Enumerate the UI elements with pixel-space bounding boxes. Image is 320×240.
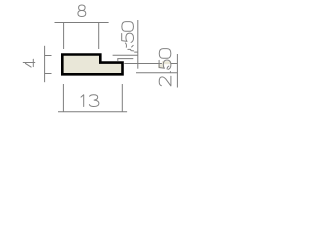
dim 4: top tick [45,55,52,57]
dim 4: dimension line [44,46,46,82]
dim 2,50: dimension line [176,54,178,88]
dim 8: left extension [63,23,65,50]
dim 13: dimension line [58,111,127,113]
profile outline (stepped bar) [62,55,122,75]
dim 1,50: "1" (literal marks) [132,45,134,47]
dim 8: text "8" [78,5,86,17]
dim 8: dimension line [55,22,109,24]
dim 1,50: small bracket near step [118,59,134,61]
dim 2,50: text background mask over line C [162,61,171,64]
dim 1,50: "0" (top char) [122,22,134,32]
dim 4: bottom tick [45,73,52,75]
dim 13: right extension [121,84,123,112]
dim 1,50: comma (literal) [125,43,126,47]
dim 8: right extension [98,23,100,50]
dim 2,50: comma (literal marks) [167,66,169,69]
dim 2,50: "2" (bottom char) [159,76,171,86]
dim 2,50: "5" [159,60,171,69]
dim 2,50: "0" (top char) [159,49,171,59]
dim 1,50: extension line A (top surface) [113,54,138,56]
dim 4: text "4" rotated (literal strokes) [23,62,35,64]
dim 2,50: extension line C (step surface) [124,63,177,65]
dim 1,50: "5" [122,33,134,42]
dim 13: text "13" [81,95,84,107]
dim 1,50: dimension line [137,20,139,69]
dim 2,50: bottom extension [136,72,177,74]
dim 1,50: small tick left of dim line [134,51,138,53]
dim 13: left extension [62,84,64,112]
